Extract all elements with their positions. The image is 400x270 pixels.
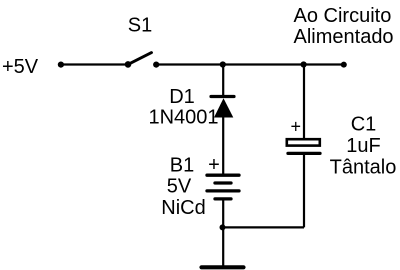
- diode D1: [211, 97, 234, 118]
- svg-text:NiCd: NiCd: [161, 197, 205, 219]
- capacitor top plate (outlined): [287, 139, 320, 145]
- svg-text:D1: D1: [169, 86, 195, 108]
- wire: junction down to diode: [222, 65, 224, 97]
- svg-text:C1: C1: [351, 113, 377, 135]
- svg-text:1uF: 1uF: [346, 135, 380, 157]
- svg-text:+: +: [208, 154, 220, 176]
- diode cathode bar: [211, 95, 234, 98]
- svg-text:1N4001: 1N4001: [148, 106, 218, 128]
- svg-text:+5V: +5V: [2, 56, 39, 78]
- switch pole dot: [125, 61, 132, 68]
- switch throw dot: [153, 62, 159, 68]
- node: junction at capacitor branch: [301, 61, 307, 67]
- wire: diode to battery: [222, 117, 224, 175]
- battery short plate 1: [215, 181, 231, 184]
- battery short plate 2: [215, 197, 231, 200]
- battery long plate 2: [207, 189, 239, 192]
- svg-text:5V: 5V: [167, 176, 192, 198]
- node: ground junction dot: [220, 224, 226, 230]
- node: +5V terminal dot: [58, 62, 64, 68]
- diode triangle: [214, 98, 233, 117]
- node: output terminal dot: [341, 62, 347, 68]
- wire: +5V terminal to switch pole: [61, 63, 128, 65]
- switch S1: [125, 53, 160, 68]
- svg-text:Tântalo: Tântalo: [330, 157, 397, 179]
- svg-text:+: +: [291, 117, 302, 137]
- wire: battery to ground junction: [222, 199, 224, 266]
- capacitor bottom plate: [288, 152, 320, 155]
- battery long plate 1: [207, 174, 239, 177]
- battery B1: [207, 175, 239, 199]
- svg-text:B1: B1: [170, 155, 194, 177]
- wire: switch to output terminal: [156, 63, 344, 65]
- svg-text:S1: S1: [128, 14, 152, 36]
- capacitor C1: [287, 139, 320, 153]
- wire: bottom horizontal to capacitor branch: [223, 226, 305, 228]
- ground: [202, 265, 244, 269]
- wire: junction down to capacitor: [303, 64, 305, 139]
- svg-text:Ao Circuito: Ao Circuito: [294, 5, 392, 27]
- wire: capacitor down and corner: [303, 154, 305, 227]
- node: junction at diode branch: [220, 61, 226, 67]
- switch lever: [128, 53, 152, 65]
- svg-text:Alimentado: Alimentado: [294, 26, 394, 48]
